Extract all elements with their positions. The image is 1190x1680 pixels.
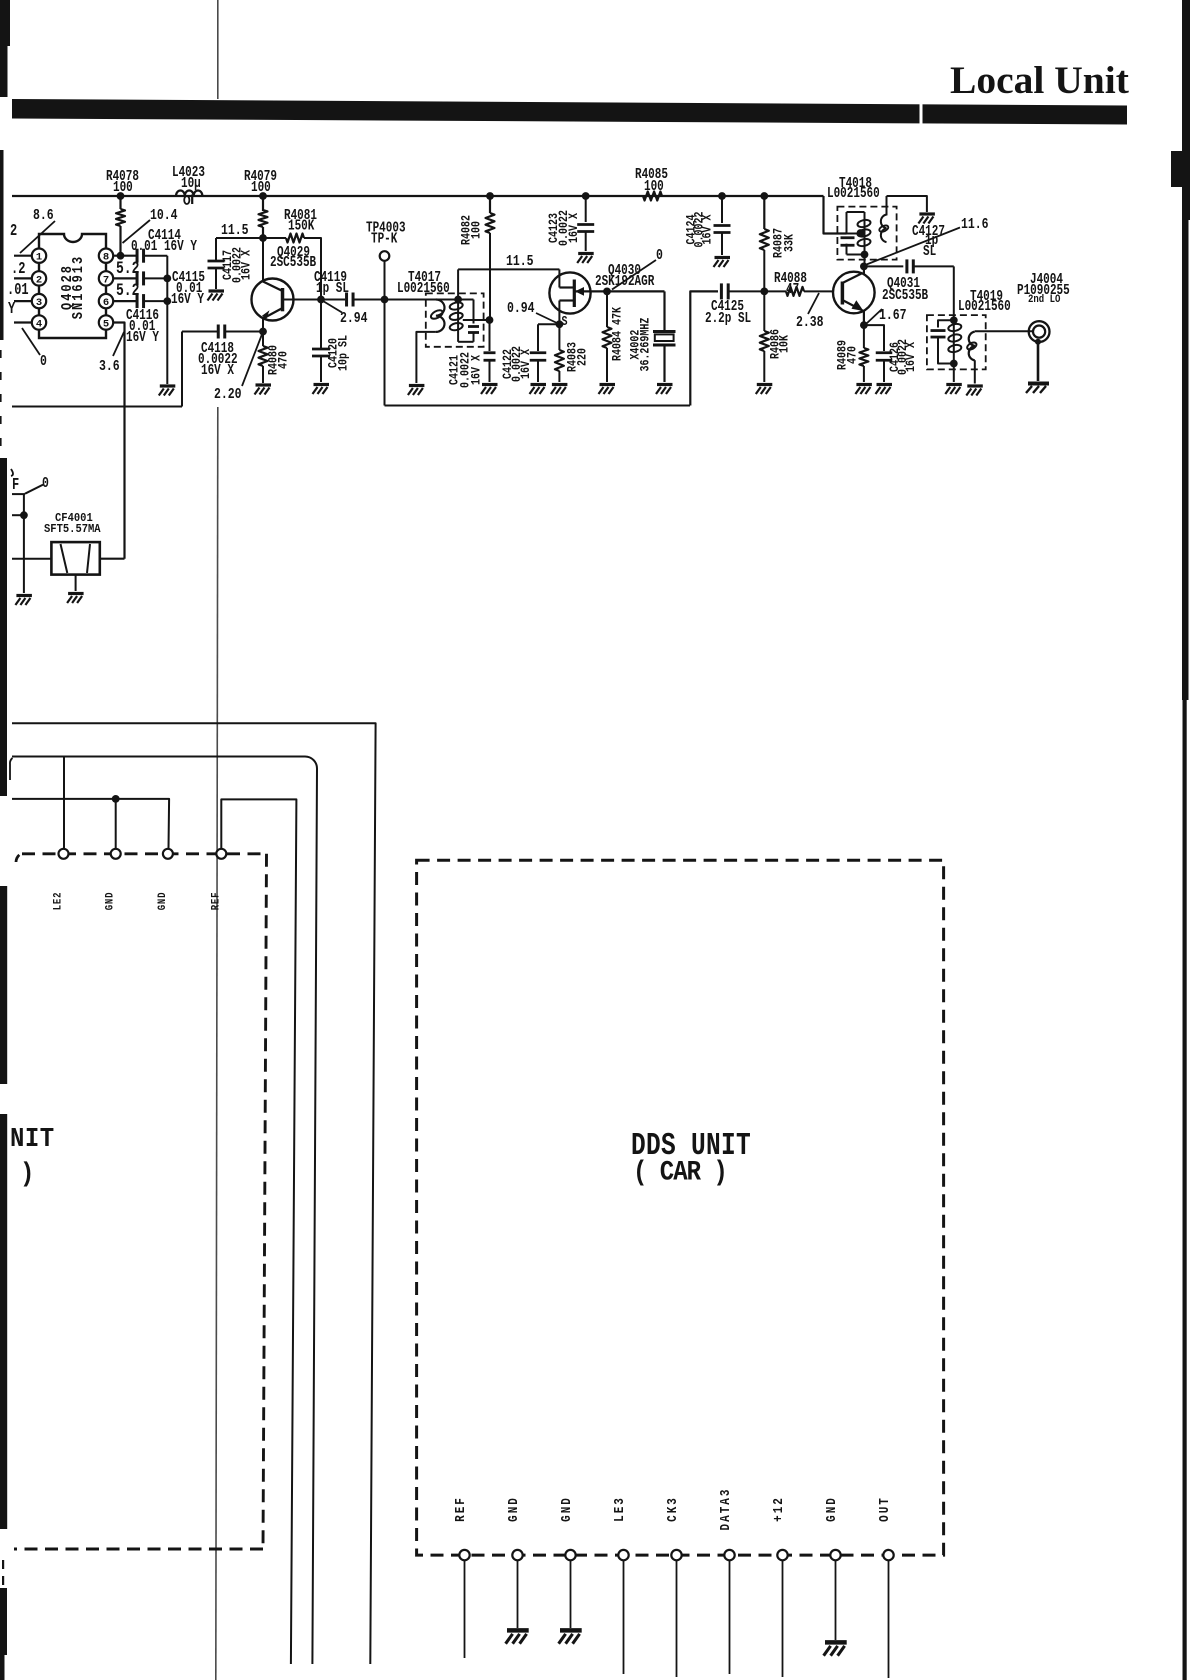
node: T4019 primary top (950, 316, 958, 324)
wire: main supply rail (12, 195, 824, 197)
wire: REF riser and run (221, 799, 296, 1664)
wire: C4127 to T4019 (953, 266, 955, 320)
resistor R4082 100 (489, 196, 491, 213)
ground (GND pin) (559, 1630, 582, 1643)
node: 11.5 collector node (259, 234, 267, 242)
wire: REF pin lead (464, 1560, 466, 1658)
svg-text:5.2: 5.2 (116, 280, 139, 300)
capacitor C4124 0.0022 16V X (721, 196, 723, 223)
svg-text:220: 220 (577, 348, 590, 366)
capacitor C4115 0.01 16V Y (113, 277, 137, 279)
wire: CF4001 ground stub (75, 575, 77, 591)
transformer T4018 L0021560 (dashed box) (837, 207, 896, 260)
wire: GND pin lead (517, 1560, 519, 1628)
ground (R4080) (255, 385, 272, 395)
svg-text:GND: GND (824, 1496, 839, 1522)
capacitor C4114 0.01 16V Y (113, 255, 137, 257)
wire: CK3 pin lead (676, 1560, 678, 1677)
svg-text:NIT: NIT (10, 1124, 55, 1154)
ground (CF4001) (67, 594, 84, 604)
T4019 internal capacitor (938, 320, 954, 327)
T4018 internal capacitor (847, 211, 865, 213)
resistor R4086 10K (763, 291, 765, 331)
switch stub F / 0 (12, 493, 25, 495)
svg-text:2: 2 (36, 274, 42, 286)
svg-text:11.5: 11.5 (506, 253, 534, 270)
pin +12 (777, 1550, 787, 1560)
svg-text:.2: .2 (11, 260, 25, 278)
pin CK3 (671, 1550, 681, 1560)
svg-text:16V X: 16V X (520, 349, 533, 379)
svg-text:2nd LO: 2nd LO (1028, 293, 1060, 305)
test point TP4003 TP-K (380, 251, 390, 261)
node: Q4029 base node (317, 296, 325, 304)
svg-text:Y: Y (8, 300, 16, 318)
wire: pin5 to CF4001 output (113, 323, 124, 559)
wire: coil tap to R4082 leg (463, 319, 490, 321)
pin LE2 (59, 849, 69, 859)
wire: T4018 feed entry (824, 233, 861, 235)
pin GND (512, 1550, 522, 1560)
wire: Q4031 emitter (863, 311, 865, 326)
wire: Q4030 gate line to base network (574, 290, 664, 292)
svg-text:16V Y: 16V Y (171, 290, 204, 307)
svg-text:TP-K: TP-K (371, 230, 398, 247)
svg-text:470: 470 (278, 351, 291, 369)
svg-text:Local Unit: Local Unit (950, 58, 1129, 102)
wire: Q4031 collector (863, 266, 865, 273)
resistor R4088 47 (764, 290, 786, 292)
svg-text:GND: GND (157, 892, 169, 911)
svg-text:100: 100 (113, 178, 133, 195)
pin GND (111, 849, 121, 859)
svg-text:10.4: 10.4 (150, 207, 178, 224)
svg-text:150K: 150K (288, 217, 315, 234)
svg-text:OUT: OUT (877, 1496, 892, 1522)
pin 3 (32, 294, 46, 308)
wire: pin3 stub (14, 300, 32, 302)
wire: stub at 515 (12, 514, 24, 516)
ground (C4123) (577, 254, 594, 264)
page fold line (vertical) (217, 0, 219, 99)
wire: Q4029 collector to node (262, 238, 264, 282)
wire: bypass bus to ground (166, 256, 168, 384)
wire: bus line 2 (rounded) (12, 757, 317, 1665)
capacitor C4120 10p SL (320, 300, 322, 350)
page border artifact: left black bar segments (0, 0, 10, 46)
wire: OUT pin lead (888, 1560, 890, 1678)
ground (R4083) (551, 385, 568, 395)
dashed unit box (left, partial) (16, 854, 20, 862)
crystal X4002 36.269MHZ (663, 291, 665, 330)
pin DATA3 (724, 1550, 734, 1560)
svg-text:0.01 16V Y: 0.01 16V Y (131, 237, 197, 254)
node: gate-R4084 junction (603, 288, 611, 296)
pin 7 (99, 271, 113, 285)
node: rail junction C4124 (718, 192, 726, 200)
T4018 secondary loop (881, 207, 887, 243)
jack J4004 P1090255 2nd LO (1029, 321, 1050, 342)
ground (X4002) (656, 385, 673, 395)
wire: feedback drop from TP4003 node (384, 300, 386, 406)
svg-text:2SC535B: 2SC535B (882, 286, 928, 303)
svg-text:470: 470 (847, 346, 860, 364)
ground (C4126) (876, 385, 893, 395)
capacitor C4116 0.01 16V Y (113, 300, 137, 302)
resistor R4079 100 (262, 196, 264, 211)
svg-text:1.67: 1.67 (879, 307, 907, 324)
svg-text:6: 6 (103, 297, 109, 309)
svg-text:10µ: 10µ (181, 174, 201, 191)
wire: T4017 left winding bottom to ground (416, 332, 436, 383)
wire: T4019 primary to ground (953, 364, 955, 383)
node: source node 0.94 (556, 320, 564, 328)
resistor R4080 470 (262, 332, 264, 347)
svg-text:4: 4 (36, 318, 42, 330)
node: coil top (454, 296, 462, 304)
pin GND (565, 1550, 575, 1560)
pin 5 (99, 315, 113, 329)
svg-text:47: 47 (786, 280, 799, 297)
T4017 left winding (436, 300, 445, 332)
node: TP4003 junction (381, 296, 389, 304)
svg-text:7: 7 (103, 274, 109, 286)
svg-text:LE2: LE2 (53, 892, 65, 911)
wire: GND pin lead (570, 1560, 572, 1628)
svg-text:F: F (12, 476, 19, 494)
svg-text:8.6: 8.6 (33, 207, 54, 224)
svg-text:2.38: 2.38 (796, 314, 824, 331)
pin 2 (32, 271, 46, 285)
svg-text:0: 0 (42, 475, 49, 492)
resistor R4081 150K (263, 237, 286, 239)
pin GND (163, 849, 173, 859)
capacitor C4123 0.0022 16V X (585, 196, 587, 222)
wire: GND pin lead (835, 1560, 837, 1640)
ground (F line) (15, 596, 32, 606)
wire: TP4003 node into T4017 (385, 299, 474, 301)
wire: pin2 stub (14, 277, 32, 279)
svg-text:( CAR ): ( CAR ) (633, 1156, 727, 1188)
node: emitter node 2.20 (259, 328, 267, 336)
T4018 primary coil (864, 212, 866, 218)
svg-text:2.2p SL: 2.2p SL (705, 309, 751, 326)
wire: bus line 3 (GND) (12, 799, 169, 848)
transformer T4017 L0021560 (dashed box) (426, 293, 484, 346)
node: rail junction R4079 (259, 192, 267, 200)
pin 8 (99, 249, 113, 263)
T4019 secondary winding (969, 332, 975, 361)
svg-text:5: 5 (103, 318, 109, 330)
svg-text:1p SL: 1p SL (316, 279, 349, 296)
pin 1 (32, 249, 46, 263)
svg-text:8: 8 (103, 252, 109, 264)
svg-text:0: 0 (656, 247, 663, 264)
svg-text:16V X: 16V X (702, 214, 715, 244)
svg-text:11.5: 11.5 (221, 222, 249, 239)
ground (GND pin) (506, 1630, 529, 1643)
svg-text:100: 100 (251, 178, 271, 195)
node: pin8 junction (117, 252, 125, 260)
node: rail junction R4078 (117, 192, 125, 200)
wire: T4019 secondary to ground (974, 360, 976, 383)
resistor R4083 220 (558, 324, 560, 350)
transformer T4019 L0021560 (dashed box) (927, 315, 986, 369)
wire: Q4029 emitter down (262, 319, 264, 332)
wire: T4019 secondary to J4004 (975, 330, 1033, 332)
capacitor C4119 1p SL (321, 299, 345, 301)
dashed unit box DDS UNIT (CAR) (417, 860, 944, 1555)
node: collector node 11.6 (860, 263, 868, 271)
node: rail junction R4087 (760, 192, 768, 200)
transistor Q4029 2SC535B (252, 279, 294, 321)
svg-text:.01: .01 (7, 281, 29, 299)
pin REF (216, 849, 226, 859)
wire: DATA3 pin lead (729, 1560, 731, 1674)
svg-text:L0021560: L0021560 (958, 297, 1011, 314)
svg-text:L0021560: L0021560 (397, 279, 450, 296)
wire: primary bottom to collector node (864, 255, 866, 267)
svg-text:2: 2 (10, 222, 17, 240)
resistor R4087 33K (763, 196, 765, 229)
svg-text:3: 3 (36, 297, 42, 309)
ground (T4018 secondary) (918, 214, 935, 224)
capacitor C4121 0.0022 16V X (489, 320, 491, 351)
svg-text:100: 100 (471, 221, 484, 239)
svg-text:2.94: 2.94 (340, 310, 368, 327)
wire: bus line 1 (12, 723, 376, 1664)
ground (C4120) (313, 385, 330, 395)
resistor R4085 100 (643, 192, 662, 201)
svg-text:100: 100 (644, 177, 664, 194)
transistor Q4031 2SC535B (833, 272, 875, 314)
node: emitter node 1.67 (860, 321, 868, 329)
ceramic filter CF4001 SFT5.57MA (51, 542, 99, 575)
node: primary bottom (861, 251, 869, 259)
svg-text:16V X: 16V X (241, 250, 254, 280)
IC Q4028 SN16913 (39, 234, 106, 338)
capacitor C4125 2.2p SL (720, 283, 723, 299)
wire: Q4030 drain (558, 269, 560, 287)
svg-text:5.2: 5.2 (116, 258, 139, 278)
svg-text:16V X: 16V X (568, 213, 581, 243)
ground (C4121) (481, 385, 498, 395)
pin GND (830, 1550, 840, 1560)
svg-text:16V Y: 16V Y (126, 328, 159, 345)
ground (T4019 primary) (945, 385, 962, 395)
wire: feedback riser to C4125 (690, 291, 718, 405)
svg-text:+12: +12 (771, 1496, 786, 1522)
wire: pin4 stub (14, 321, 32, 323)
ground (J4004) (1026, 384, 1049, 394)
capacitor C4118 0.0022 16V X (225, 331, 263, 333)
svg-text:10p SL: 10p SL (338, 335, 351, 371)
wire: +12 pin lead (782, 1560, 784, 1677)
capacitor C4127 1p SL (864, 265, 903, 267)
wire: secondary to ground (887, 196, 927, 212)
ground (T4017) (408, 386, 425, 396)
ground (C4124) (714, 258, 731, 268)
wire: Q4030 source (558, 301, 560, 325)
svg-text:GND: GND (506, 1496, 521, 1522)
ground (R4084) (599, 385, 616, 395)
page border artifact: right black bar (1182, 0, 1190, 220)
svg-text:DATA3: DATA3 (718, 1488, 733, 1531)
wire: CF4001 input (12, 558, 51, 560)
node: bus-C4115 (163, 275, 171, 283)
T4017 internal capacitor (473, 300, 475, 324)
node: T4019 primary bottom (950, 360, 958, 368)
node: Q4031 base node (760, 288, 768, 296)
resistor R4078 100 (119, 196, 121, 209)
wire: CF4001 output riser (100, 558, 125, 560)
pin OUT (883, 1550, 893, 1560)
svg-text:S: S (562, 314, 568, 330)
wire: F line to ground (23, 494, 25, 593)
svg-text:10K: 10K (779, 335, 792, 353)
ground (R4086) (756, 385, 773, 395)
node: line3 GND branch (112, 795, 120, 803)
svg-text:REF: REF (453, 1496, 468, 1522)
wire: pin1 stub (14, 255, 32, 257)
node: F junction (20, 511, 28, 519)
pin 4 (32, 315, 46, 329)
svg-text:11.6: 11.6 (961, 216, 989, 233)
wire: drain line 11.5 (458, 268, 559, 270)
node: bus-C4116 (163, 297, 171, 305)
svg-text:R4084 47K: R4084 47K (612, 307, 625, 361)
wire: feedback bottom run (385, 405, 691, 407)
node: rail junction R4082 (486, 192, 494, 200)
svg-text:L0021560: L0021560 (827, 184, 880, 201)
capacitor C4122 0.0022 16V X (538, 323, 559, 325)
svg-text:SL: SL (923, 242, 936, 259)
svg-text:REF: REF (211, 892, 223, 911)
pin REF (459, 1550, 469, 1560)
svg-text:CK3: CK3 (665, 1496, 680, 1522)
svg-text:1: 1 (36, 252, 42, 264)
svg-text:33K: 33K (784, 234, 797, 252)
svg-text:): ) (20, 1159, 34, 1189)
wire: GND branch (115, 799, 117, 848)
svg-text:LE3: LE3 (612, 1496, 627, 1522)
resistor R4089 470 (863, 325, 865, 348)
wire: LE3 pin lead (623, 1560, 625, 1674)
svg-text:16V X: 16V X (471, 355, 484, 385)
FET Q4030 2SK192AGR (549, 272, 590, 313)
svg-text:GND: GND (559, 1496, 574, 1522)
svg-text:3.6: 3.6 (99, 358, 120, 375)
title underline thick bar (12, 99, 1127, 125)
wire: T4017 coil top to drain line (457, 269, 459, 299)
inductor L4023 10u (176, 190, 202, 196)
svg-text:36.269MHZ: 36.269MHZ (640, 317, 653, 371)
wire: rail corner down to T4018 feed (824, 196, 847, 234)
T4017 right coil (457, 300, 459, 342)
capacitor C4126 0.0022 16V X (864, 325, 884, 351)
svg-text:SN16913: SN16913 (71, 255, 88, 319)
pin 6 (99, 294, 113, 308)
ground (C4117) (208, 291, 225, 301)
svg-text:16V X: 16V X (201, 361, 234, 378)
wire: C4118 left leg down to bottom return (181, 332, 183, 407)
svg-text:SFT5.57MA: SFT5.57MA (44, 524, 101, 537)
wire: bottom return line (left) (12, 406, 182, 408)
svg-text:16V X: 16V X (905, 342, 918, 372)
svg-text:0: 0 (40, 353, 47, 370)
capacitor C4117 0.0022 16V X (216, 237, 263, 239)
node: rail junction C4123 (582, 192, 590, 200)
resistor R4084 47K (606, 291, 608, 327)
ground (T4019 secondary) (966, 386, 983, 396)
ground (bypass bus) (159, 386, 176, 396)
svg-text:GND: GND (105, 892, 117, 911)
node: R4082-T4017 tap (486, 316, 494, 324)
svg-text:2.20: 2.20 (214, 386, 242, 403)
svg-text:2SC535B: 2SC535B (270, 253, 316, 270)
ground (C4122) (530, 385, 547, 395)
pin LE3 (618, 1550, 628, 1560)
ground (GND pin) (824, 1642, 847, 1655)
wire: LE2 branch from line2 (63, 757, 65, 849)
ground (R4089) (855, 385, 872, 395)
svg-text:0.94: 0.94 (507, 300, 535, 317)
T4019 primary coil (953, 320, 955, 363)
